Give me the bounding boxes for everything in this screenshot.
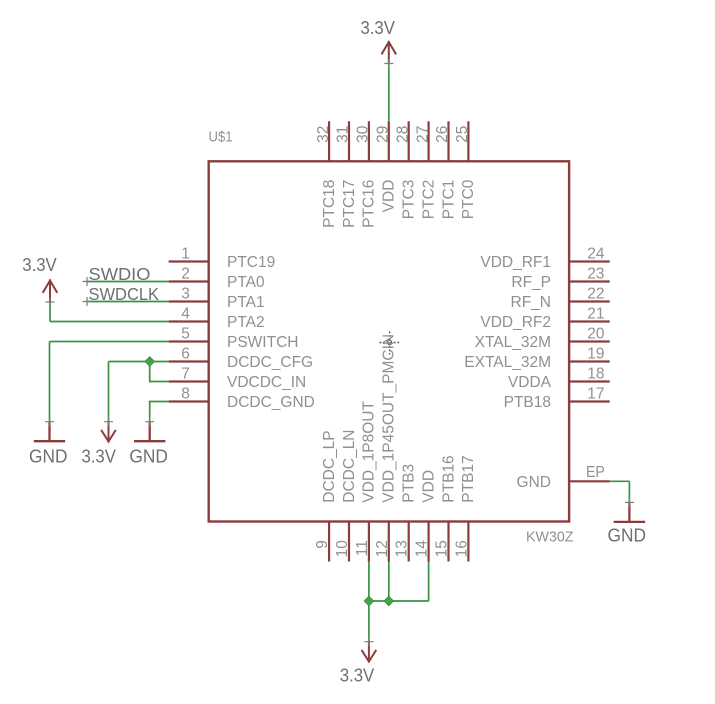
svg-text:PTC3: PTC3: [401, 180, 418, 220]
svg-text:23: 23: [587, 265, 604, 282]
wire pin 11 down: [368, 562, 370, 602]
svg-text:1: 1: [181, 245, 190, 262]
svg-text:28: 28: [394, 126, 411, 143]
pin 17 (PTB18) right: stub, number, name: [504, 385, 610, 411]
svg-text:24: 24: [587, 245, 605, 262]
svg-text:13: 13: [394, 540, 411, 557]
svg-text:20: 20: [587, 325, 605, 342]
pin 21 (VDD_RF2) right: stub, number, name: [480, 305, 609, 331]
svg-text:PTC19: PTC19: [227, 254, 275, 271]
wire down to 3.3V bottom: [368, 601, 370, 642]
pin 26 (PTC1) top: stub, number, name: [434, 121, 457, 219]
pin 13 (PTB3) bottom: stub, number, name: [394, 464, 418, 562]
svg-text:PTC16: PTC16: [361, 180, 378, 228]
pin 23 (RF_P) right: stub, number, name: [511, 265, 609, 291]
wire pin 8 to GND: [150, 402, 169, 422]
wire 3.3V to pin 4 (vertical): [49, 302, 51, 322]
svg-text:DCDC_CFG: DCDC_CFG: [227, 354, 313, 371]
svg-text:4: 4: [181, 305, 190, 322]
pin 14 (VDD) bottom: stub, number, name: [414, 470, 438, 562]
svg-text:PTC18: PTC18: [321, 180, 338, 228]
svg-text:19: 19: [587, 345, 604, 362]
svg-text:31: 31: [335, 126, 352, 143]
wire 3.3V to pin 4 (horizontal): [50, 321, 169, 323]
svg-text:VDD_RF1: VDD_RF1: [480, 254, 551, 271]
pin 31 (PTC17) top: stub, number, name: [335, 121, 358, 228]
wire bottom horizontal bus: [369, 600, 429, 602]
svg-text:PTB3: PTB3: [401, 464, 418, 503]
svg-text:PTA0: PTA0: [227, 274, 265, 291]
svg-text:12: 12: [374, 540, 391, 557]
part origin cross: [380, 332, 401, 355]
pin 8 (DCDC_GND) left: stub, number, name: [169, 385, 315, 411]
svg-text:27: 27: [414, 126, 431, 143]
wire SWDIO to pin 2: [87, 281, 169, 283]
svg-text:3.3V: 3.3V: [81, 447, 116, 467]
svg-text:VDDA: VDDA: [508, 374, 552, 391]
pin 9 (DCDC_LP) bottom: stub, number, name: [314, 430, 338, 561]
wire pin 6 to 3.3V (horizontal): [109, 361, 169, 363]
junction pin 11 net: [364, 596, 374, 606]
svg-text:PTB18: PTB18: [504, 394, 551, 411]
svg-text:3.3V: 3.3V: [340, 665, 375, 685]
svg-text:8: 8: [181, 385, 190, 402]
svg-text:PTC17: PTC17: [341, 180, 358, 228]
supply 3.3V mid-left (down arrow): [81, 422, 116, 467]
pin 19 (EXTAL_32M) right: stub, number, name: [464, 345, 609, 371]
pin 1 (PTC19) left: stub, number, name: [169, 245, 276, 271]
svg-text:7: 7: [181, 365, 190, 382]
wire pin 6 to 3.3V (vertical): [108, 362, 110, 422]
svg-text:25: 25: [454, 126, 471, 143]
ground GND at EP: [608, 502, 647, 545]
svg-text:VDD_RF2: VDD_RF2: [480, 314, 551, 331]
svg-text:PTA2: PTA2: [227, 314, 265, 331]
svg-text:DCDC_GND: DCDC_GND: [227, 394, 315, 411]
svg-text:GND: GND: [29, 446, 68, 467]
pin 16 (PTB17) bottom: stub, number, name: [453, 455, 477, 561]
pin 28 (PTC3) top: stub, number, name: [394, 121, 417, 219]
pin 5 (PSWITCH) left: stub, number, name: [169, 325, 299, 351]
pin 32 (PTC18) top: stub, number, name: [315, 121, 338, 228]
svg-text:U$1: U$1: [209, 129, 233, 146]
svg-text:PTB17: PTB17: [460, 455, 477, 502]
svg-text:3.3V: 3.3V: [360, 18, 395, 38]
svg-text:3.3V: 3.3V: [22, 255, 57, 275]
wire 3.3V to pin 29 VDD (top): [388, 65, 390, 122]
svg-text:RF_P: RF_P: [511, 274, 551, 291]
svg-text:GND: GND: [129, 446, 168, 467]
pin 25 (PTC0) top: stub, number, name: [454, 121, 477, 219]
supply 3.3V top-left: [22, 255, 57, 302]
pin 24 (VDD_RF1) right: stub, number, name: [480, 245, 609, 271]
wire pin 5 to GND (horizontal): [50, 341, 169, 343]
junction on pin 6 net: [145, 357, 155, 367]
pin 20 (XTAL_32M) right: stub, number, name: [475, 325, 610, 351]
svg-text:PTC1: PTC1: [440, 180, 457, 220]
svg-text:9: 9: [314, 540, 331, 549]
wire junction to pin 7: [150, 362, 169, 382]
svg-text:5: 5: [181, 325, 190, 342]
svg-text:21: 21: [587, 305, 604, 322]
svg-text:VDD_1P8OUT: VDD_1P8OUT: [361, 401, 378, 503]
pin EP (GND pad): stub, name inside, EP label: [517, 464, 610, 491]
wire EP to GND (horizontal): [610, 480, 630, 482]
svg-text:XTAL_32M: XTAL_32M: [475, 334, 551, 351]
svg-text:17: 17: [587, 385, 604, 402]
svg-text:14: 14: [414, 540, 431, 558]
pin 10 (DCDC_LN) bottom: stub, number, name: [334, 429, 358, 561]
svg-text:29: 29: [375, 126, 392, 143]
pin 2 (PTA0) left: stub, number, name: [169, 265, 265, 291]
pin 11 (VDD_1P8OUT) bottom: stub, number, name: [354, 401, 378, 562]
pin 30 (PTC16) top: stub, number, name: [355, 121, 378, 228]
op-amp U$1 IC body (KW30Z): [209, 161, 569, 521]
svg-text:PTC2: PTC2: [420, 180, 437, 220]
svg-text:15: 15: [434, 540, 451, 557]
pin 29 (VDD) top: stub, number, name: [375, 121, 398, 212]
svg-text:3: 3: [181, 285, 190, 302]
svg-text:10: 10: [334, 540, 351, 558]
svg-text:DCDC_LP: DCDC_LP: [321, 430, 338, 502]
svg-text:22: 22: [587, 285, 604, 302]
svg-text:2: 2: [181, 265, 190, 282]
svg-text:RF_N: RF_N: [511, 294, 551, 311]
svg-text:VDCDC_IN: VDCDC_IN: [227, 374, 306, 391]
svg-text:GND: GND: [517, 474, 551, 491]
svg-text:EP: EP: [586, 464, 605, 481]
svg-text:30: 30: [355, 125, 372, 143]
svg-text:VDD: VDD: [420, 470, 437, 503]
svg-text:18: 18: [587, 365, 604, 382]
svg-text:11: 11: [354, 540, 371, 556]
wire SWDCLK to pin 3: [87, 301, 169, 303]
svg-text:32: 32: [315, 126, 332, 143]
pin 27 (PTC2) top: stub, number, name: [414, 121, 437, 219]
wire pin 5 to GND (vertical): [49, 342, 51, 422]
pin 18 (VDDA) right: stub, number, name: [508, 365, 610, 391]
svg-text:PTC0: PTC0: [460, 179, 477, 219]
pin 7 (VDCDC_IN) left: stub, number, name: [169, 365, 307, 391]
supply 3.3V bottom (down arrow): [340, 642, 376, 686]
wire pin 14 down: [428, 562, 430, 602]
pin 3 (PTA1) left: stub, number, name: [169, 285, 265, 311]
svg-text:PTA1: PTA1: [227, 294, 265, 311]
svg-text:26: 26: [434, 126, 451, 143]
svg-text:GND: GND: [608, 524, 647, 545]
svg-text:6: 6: [181, 345, 190, 362]
svg-text:PTB16: PTB16: [440, 455, 457, 502]
junction pin 12 net: [384, 596, 394, 606]
svg-text:VDD_1P45OUT_PMCIN: VDD_1P45OUT_PMCIN: [381, 334, 398, 503]
pin 12 (VDD_1P45OUT_PMCIN) bottom: stub, number, name: [374, 334, 398, 562]
pin 6 (DCDC_CFG) left: stub, number, name: [169, 345, 314, 371]
ground GND mid-left: [129, 422, 168, 467]
supply 3.3V top: [360, 18, 395, 63]
pin 22 (RF_N) right: stub, number, name: [511, 285, 610, 311]
wire pin 12 down: [388, 562, 390, 602]
svg-text:16: 16: [453, 540, 470, 557]
svg-text:PSWITCH: PSWITCH: [227, 334, 298, 351]
wire EP to GND (vertical): [628, 481, 630, 502]
svg-text:EXTAL_32M: EXTAL_32M: [464, 354, 551, 371]
ground GND left: [29, 422, 68, 467]
svg-text:KW30Z: KW30Z: [526, 529, 574, 546]
pin 15 (PTB16) bottom: stub, number, name: [434, 455, 458, 561]
pin 4 (PTA2) left: stub, number, name: [169, 305, 265, 331]
svg-text:DCDC_LN: DCDC_LN: [341, 429, 358, 502]
svg-text:VDD: VDD: [381, 180, 398, 213]
